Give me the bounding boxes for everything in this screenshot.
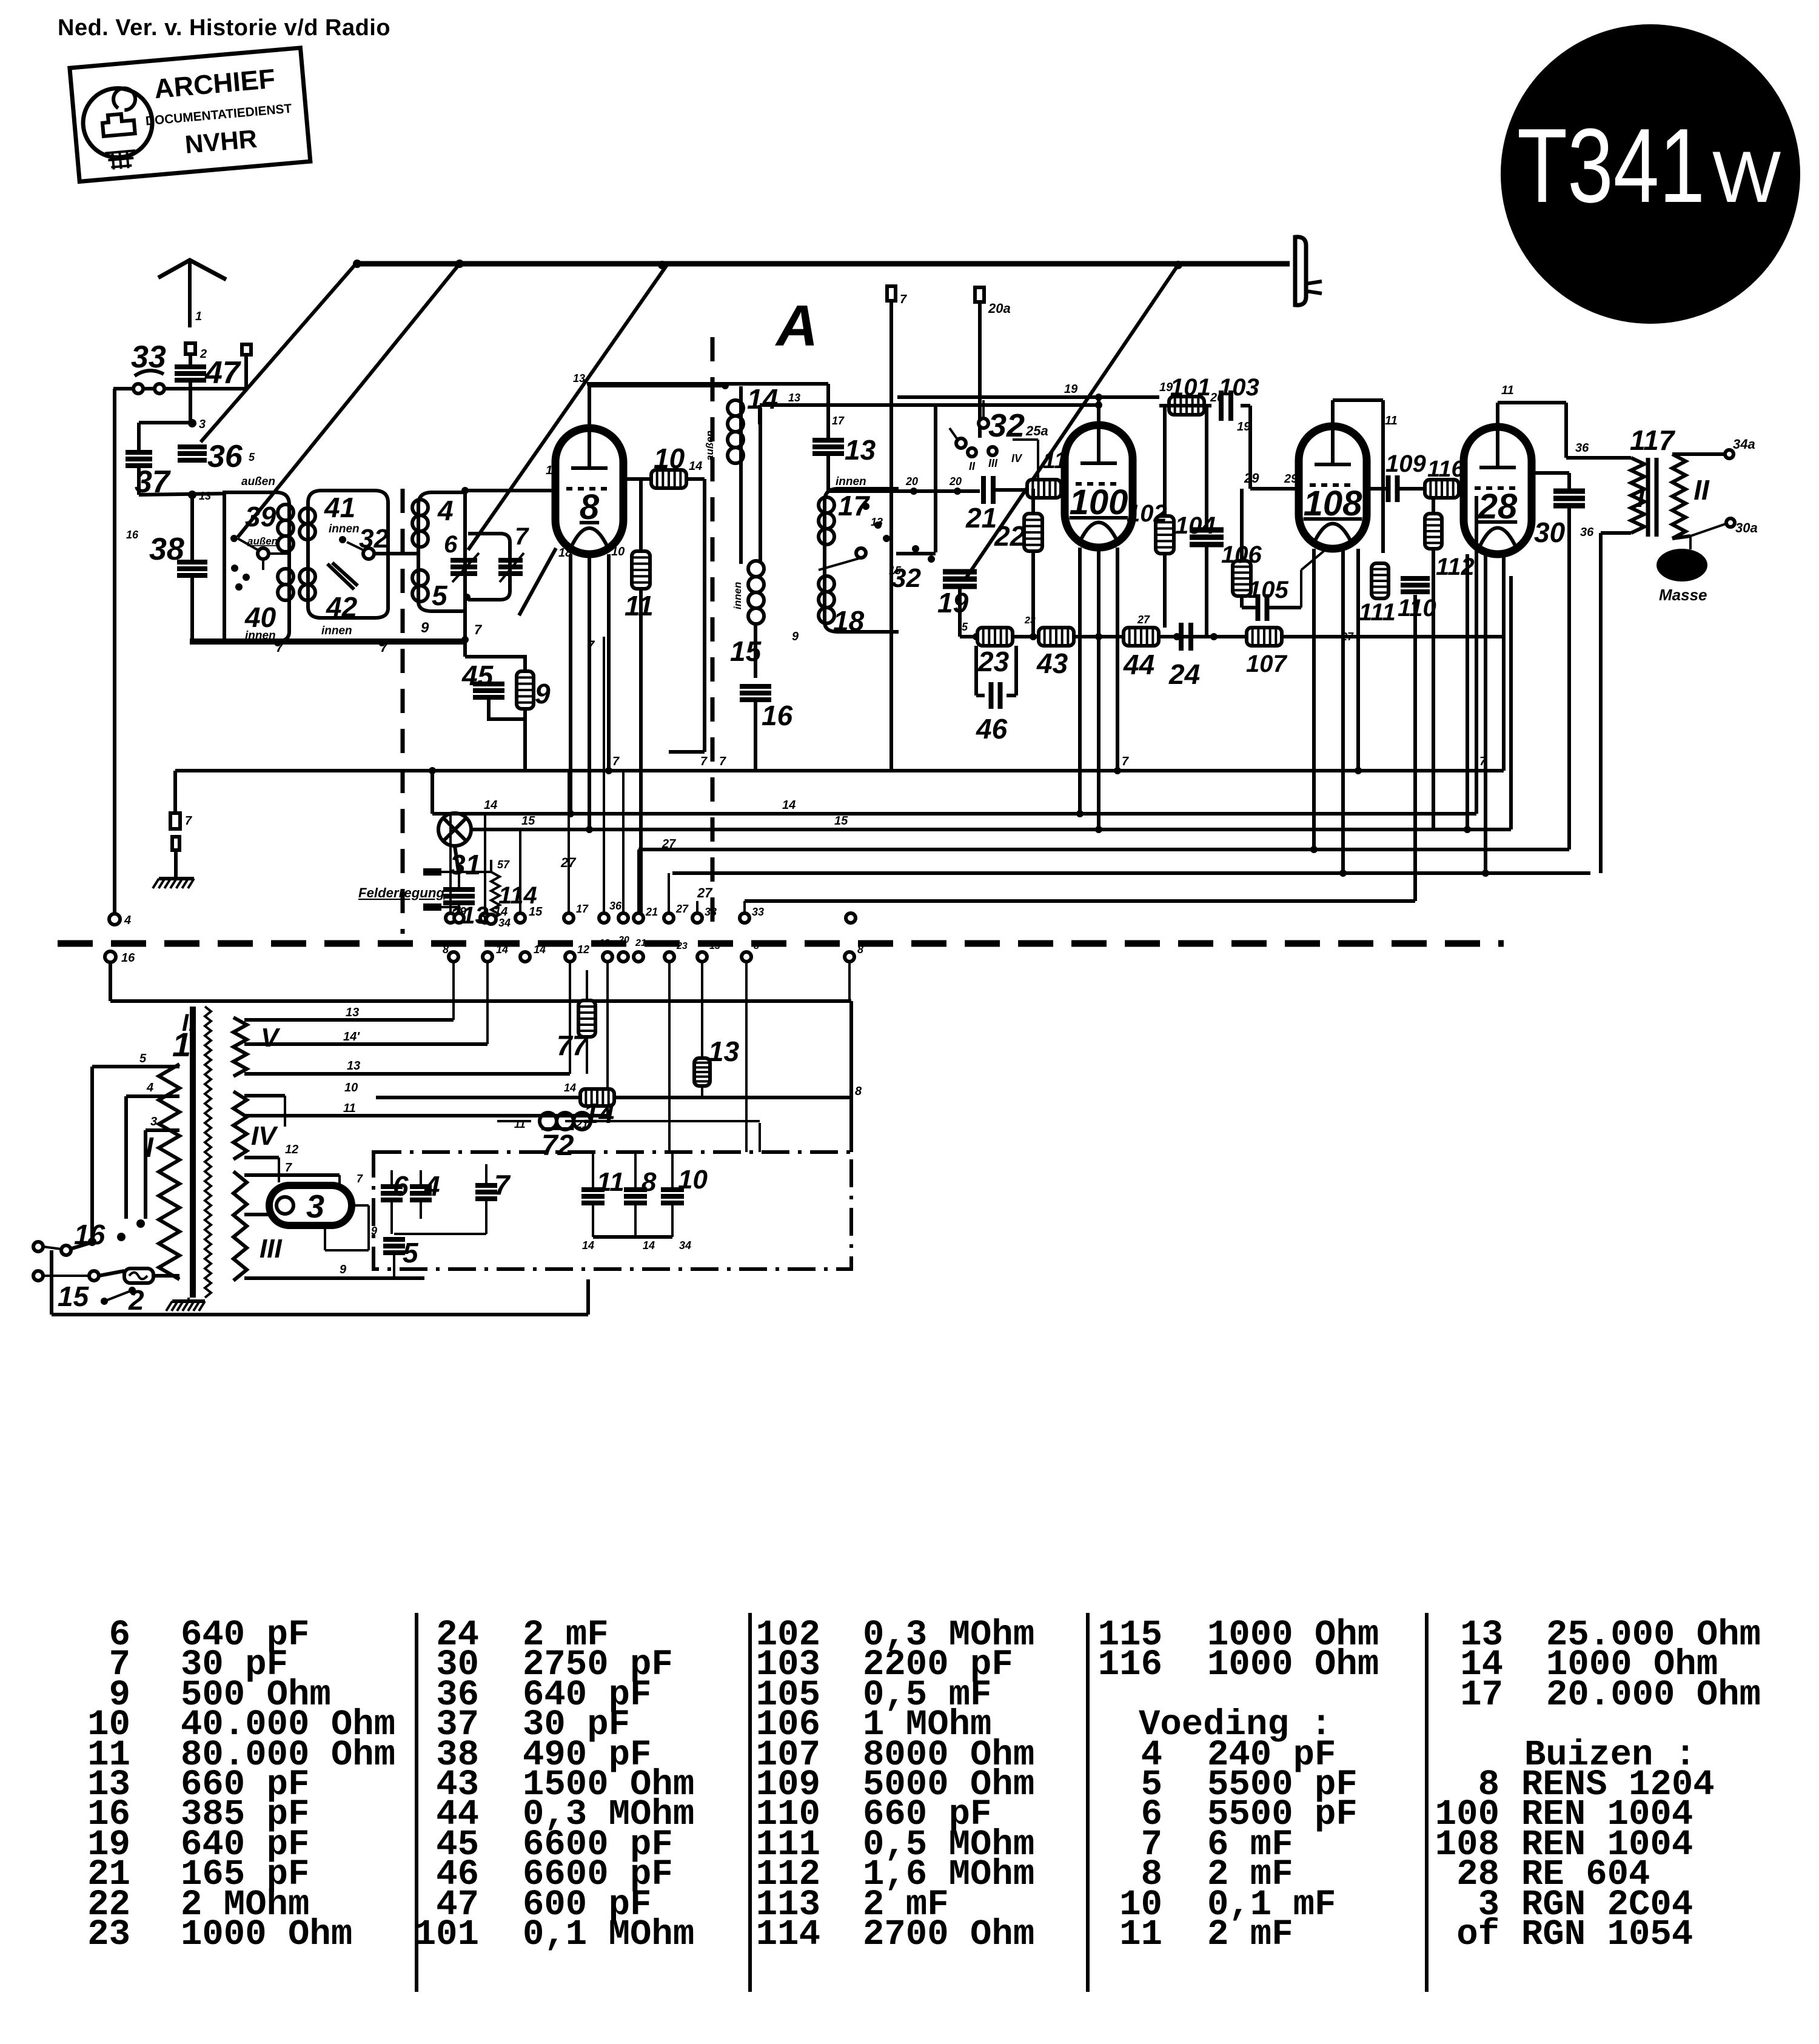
node bus 7a	[274, 639, 281, 646]
wire anode row to res101	[897, 395, 1159, 399]
wire vertical x767	[463, 492, 467, 657]
svg-text:7: 7	[719, 755, 726, 768]
wire far-left vertical from switch	[113, 389, 116, 913]
wire row y1401	[638, 848, 1569, 851]
rectifier tube 3 RGN2004	[269, 1185, 352, 1225]
svg-text:27: 27	[662, 837, 676, 851]
resistor 10	[651, 470, 686, 488]
resistor 23	[977, 628, 1013, 646]
svg-text:101: 101	[1170, 374, 1211, 401]
svg-text:13: 13	[871, 516, 883, 528]
wire switch row 33	[113, 387, 246, 390]
node 13 top	[722, 382, 729, 389]
svg-text:23: 23	[87, 1914, 130, 1955]
wire row y1368	[471, 828, 1511, 831]
power section bottom wire	[52, 1313, 588, 1316]
svg-text:18: 18	[558, 546, 572, 560]
svg-text:27: 27	[1341, 631, 1354, 643]
svg-text:24: 24	[1168, 658, 1200, 690]
svg-text:T341: T341	[1517, 106, 1705, 224]
capacitor 36	[178, 444, 207, 449]
svg-text:11: 11	[1501, 384, 1514, 397]
svg-text:13: 13	[347, 1059, 360, 1073]
svg-text:44: 44	[1123, 649, 1154, 680]
svg-text:5: 5	[432, 580, 448, 611]
wire ground bus RF section	[190, 638, 467, 645]
wire to cap38	[190, 495, 194, 561]
wire lamp feed	[430, 771, 434, 814]
node junction 36/38	[188, 491, 196, 499]
wire 104 down	[1205, 545, 1208, 637]
svg-text:8: 8	[580, 488, 600, 527]
capacitor 47	[175, 364, 206, 369]
NVHR archive stamp	[70, 48, 310, 182]
svg-text:8: 8	[443, 943, 449, 956]
wire res11 top	[639, 479, 643, 551]
svg-text:10: 10	[678, 1165, 708, 1195]
svg-text:3: 3	[306, 1188, 324, 1225]
svg-text:7: 7	[900, 293, 907, 306]
terminal 114	[486, 914, 496, 924]
svg-text:8: 8	[754, 941, 759, 951]
wire coil72	[497, 1120, 531, 1122]
wire anode row y636	[589, 384, 725, 387]
svg-text:41: 41	[324, 492, 355, 523]
earth plate symbol	[1295, 237, 1306, 305]
switch 17/18 contacts	[862, 503, 869, 510]
svg-text:4: 4	[424, 1170, 440, 1202]
wire 13b	[701, 962, 703, 1057]
resistor 102	[1156, 516, 1174, 554]
svg-text:19: 19	[937, 587, 969, 618]
svg-text:7: 7	[1479, 755, 1487, 768]
wire cap30 up	[1567, 473, 1571, 490]
primary taps	[92, 1065, 179, 1068]
svg-text:107: 107	[1246, 651, 1287, 677]
transformer ground	[187, 1298, 190, 1300]
svg-text:4: 4	[437, 495, 454, 526]
svg-text:16: 16	[126, 529, 139, 541]
svg-text:1: 1	[172, 1025, 191, 1064]
terminal 113	[454, 913, 464, 923]
wire cap37 branch vertical	[137, 423, 141, 452]
wire tube28 anode	[1496, 403, 1499, 427]
svg-text:43: 43	[1036, 648, 1068, 679]
wire 25a link	[1013, 438, 1038, 441]
power section left border	[50, 1250, 53, 1315]
svg-text:20: 20	[905, 475, 918, 488]
coil box 4/5/6 outline	[418, 492, 465, 611]
svg-text:19: 19	[1159, 381, 1173, 394]
wire 104 up	[1205, 406, 1208, 530]
svg-text:7: 7	[285, 1161, 292, 1174]
svg-text:42: 42	[326, 591, 358, 623]
svg-text:7: 7	[494, 1169, 511, 1201]
svg-text:102: 102	[1127, 500, 1167, 527]
svg-text:23: 23	[1024, 615, 1036, 626]
svg-text:116: 116	[1098, 1644, 1162, 1685]
svg-text:34: 34	[679, 1239, 691, 1252]
svg-text:108: 108	[1304, 484, 1363, 523]
capacitor 21	[981, 476, 986, 504]
svg-text:4: 4	[124, 914, 131, 927]
node bus junction 4	[1174, 261, 1182, 269]
tube 8 RENS1204	[555, 428, 623, 554]
svg-text:7: 7	[587, 638, 595, 653]
mains terminal a	[33, 1242, 43, 1252]
svg-text:114: 114	[756, 1914, 820, 1955]
wire 102 up	[1163, 406, 1167, 516]
svg-text:15: 15	[521, 814, 535, 828]
svg-text:39: 39	[245, 501, 276, 532]
svg-text:0,1 MOhm: 0,1 MOhm	[523, 1914, 694, 1955]
capacitor 10b	[661, 1187, 684, 1192]
svg-text:innen: innen	[732, 582, 743, 609]
node junction 3a	[188, 419, 196, 427]
coil 39 loops	[278, 504, 293, 520]
svg-text:12: 12	[577, 943, 589, 956]
capacitor 24	[1179, 623, 1184, 651]
wire 22 down	[1031, 551, 1035, 637]
wire cap13 up	[826, 384, 830, 438]
wire row right risers	[1475, 496, 1478, 814]
wire cap38 to ground bus	[190, 576, 194, 642]
wire 22 top	[1031, 489, 1035, 514]
node 7-box junction	[463, 594, 471, 601]
node bus dots	[973, 633, 980, 640]
svg-text:23: 23	[676, 941, 688, 951]
svg-text:19: 19	[1064, 383, 1078, 396]
node bus junction 1	[353, 260, 361, 268]
svg-text:IV: IV	[251, 1121, 278, 1151]
svg-text:8: 8	[857, 943, 863, 956]
power transformer secondary V	[233, 1017, 247, 1076]
tube3 leads	[338, 1175, 341, 1185]
svg-text:11: 11	[343, 1102, 356, 1115]
capacitor 16	[740, 684, 771, 689]
svg-text:36: 36	[609, 900, 622, 912]
wire 16 down-right	[109, 962, 112, 1001]
svg-text:45: 45	[461, 660, 494, 691]
wire wiper riser x1543	[934, 407, 937, 552]
wire gang link segment	[519, 548, 556, 615]
wire to cap37 branch	[139, 421, 192, 424]
capacitor 104	[1190, 528, 1224, 533]
svg-text:1: 1	[195, 310, 202, 323]
node tube100 grid	[1095, 401, 1102, 409]
svg-text:2: 2	[128, 1284, 144, 1316]
wire to tube108 grid	[1250, 487, 1299, 491]
svg-text:20: 20	[949, 475, 962, 488]
svg-text:17: 17	[576, 903, 589, 915]
capacitor 113	[423, 868, 441, 876]
svg-text:17: 17	[1460, 1675, 1503, 1715]
fuse 2	[124, 1268, 153, 1283]
wire tube8 grid to coil	[465, 489, 557, 492]
svg-text:6: 6	[444, 531, 458, 558]
speaker transformer 117	[1631, 458, 1644, 533]
svg-text:20: 20	[1210, 391, 1224, 404]
svg-text:36: 36	[1575, 441, 1589, 455]
tube 108 REN1004	[1299, 426, 1367, 549]
wire tuning-gang diagonal D3	[468, 265, 667, 550]
terminal 0 socket	[242, 344, 251, 355]
resistor 116	[1425, 480, 1459, 498]
wire cap30 down	[1567, 507, 1571, 849]
svg-text:RGN 1054: RGN 1054	[1521, 1914, 1693, 1955]
wire tuning-gang diagonal D2	[238, 264, 460, 537]
svg-text:14: 14	[689, 460, 702, 473]
svg-text:innen: innen	[329, 523, 360, 535]
capacitor 46 loop	[974, 646, 978, 695]
terminal 2 antenna socket	[186, 343, 195, 354]
wire res10 right	[686, 477, 705, 481]
wire 21 right	[993, 488, 1031, 492]
svg-text:40: 40	[244, 601, 276, 633]
svg-text:34: 34	[498, 917, 511, 929]
wire 103 down	[1248, 406, 1252, 489]
lamp 31	[438, 813, 471, 846]
resistor 114 zigzag	[491, 872, 500, 919]
coil 15	[748, 561, 764, 577]
wire 115 to tube100	[1061, 487, 1067, 491]
svg-text:22: 22	[994, 520, 1026, 552]
capacitor 38	[177, 560, 207, 565]
power transformer core bar	[190, 1007, 196, 1298]
wire 105 wiring	[1240, 596, 1244, 608]
svg-text:47: 47	[204, 355, 241, 390]
svg-text:9: 9	[792, 630, 799, 643]
switch 33 wiper arc	[135, 370, 164, 376]
wire 19 down	[958, 587, 962, 637]
coil 41 loops	[300, 508, 315, 524]
svg-text:117: 117	[1630, 424, 1676, 456]
svg-text:3: 3	[199, 418, 206, 431]
svg-text:29: 29	[1244, 471, 1259, 486]
terminal 20a	[975, 287, 984, 302]
svg-text:10: 10	[546, 464, 559, 477]
svg-text:15: 15	[889, 565, 902, 577]
capacitor 45 resistor 9 group	[465, 657, 525, 669]
svg-text:34a: 34a	[1733, 437, 1755, 452]
resistor 115	[1027, 480, 1061, 498]
svg-text:28: 28	[1478, 487, 1518, 526]
svg-text:5: 5	[249, 451, 255, 463]
svg-text:10: 10	[654, 443, 685, 474]
svg-text:7: 7	[1122, 755, 1129, 768]
capacitor 110	[1401, 576, 1430, 581]
antenna symbol	[158, 260, 226, 280]
tube 28 RE604	[1464, 427, 1532, 554]
chassis dashed separator horizontal	[58, 940, 1504, 947]
svg-text:II: II	[969, 460, 976, 472]
capacitor 105	[1256, 594, 1261, 621]
resistor 101	[1169, 397, 1204, 415]
svg-text:13: 13	[709, 941, 720, 951]
svg-text:109: 109	[1385, 451, 1426, 477]
svg-text:2 mF: 2 mF	[1207, 1914, 1293, 1955]
wire tuning-gang diagonal D1	[201, 264, 356, 442]
terminal 4	[109, 914, 120, 925]
svg-text:11: 11	[1119, 1914, 1162, 1955]
svg-text:A: A	[775, 293, 818, 358]
capacitor 30	[1553, 489, 1585, 494]
coil 17 loops	[819, 497, 834, 513]
svg-text:innen: innen	[321, 625, 352, 637]
svg-text:14: 14	[782, 799, 796, 812]
wire mid bus y1050	[960, 635, 1504, 638]
svg-text:7: 7	[185, 814, 192, 828]
wire terminal drops power	[569, 962, 571, 1074]
coil box 17/18 outline	[825, 489, 899, 632]
svg-text:27: 27	[675, 903, 689, 915]
svg-text:33: 33	[131, 340, 166, 375]
svg-text:8: 8	[855, 1085, 862, 1098]
svg-text:7: 7	[380, 640, 389, 655]
switch 33 contact a	[133, 384, 143, 394]
node bus junction 2	[455, 260, 464, 268]
resistor 111	[1372, 563, 1389, 598]
svg-text:6: 6	[393, 1170, 409, 1202]
svg-text:12: 12	[285, 1143, 298, 1156]
wire grid bias row y810	[828, 489, 980, 493]
wire coil15 down	[754, 625, 757, 678]
svg-text:13: 13	[199, 490, 211, 502]
svg-text:103: 103	[1219, 374, 1259, 401]
svg-text:20.000 Ohm: 20.000 Ohm	[1546, 1675, 1761, 1715]
wire 101-103 row	[1159, 404, 1211, 407]
terminal row above chassis line	[446, 913, 455, 923]
capacitor 8b	[624, 1187, 647, 1192]
svg-text:13: 13	[346, 1006, 359, 1019]
wire cap13 down	[826, 455, 830, 491]
svg-text:15: 15	[834, 814, 848, 828]
svg-text:72: 72	[541, 1130, 574, 1162]
secondary tap wires	[244, 1018, 454, 1022]
wire 109-116	[1367, 487, 1388, 491]
svg-text:16: 16	[121, 951, 135, 965]
svg-text:14: 14	[747, 383, 778, 415]
coil 42 loops	[300, 569, 315, 585]
wire lamp bottom lead	[455, 846, 458, 871]
wire row y816	[139, 494, 224, 495]
wire 112 up	[1432, 496, 1435, 514]
svg-text:11: 11	[597, 1167, 625, 1197]
svg-text:14: 14	[564, 1082, 576, 1094]
mains terminal b	[33, 1271, 43, 1281]
wire row y1271	[175, 769, 1504, 772]
wire res14 row	[376, 1096, 580, 1099]
svg-text:II: II	[1693, 474, 1710, 506]
ground symbol left	[159, 877, 194, 880]
coil 14	[728, 400, 743, 416]
wire caps bottom bus	[593, 1235, 672, 1239]
svg-text:9: 9	[340, 1263, 347, 1276]
terminal row below chassis line	[449, 952, 458, 962]
svg-text:21: 21	[645, 906, 658, 918]
wire tube108 leads down	[1312, 549, 1316, 849]
svg-text:16: 16	[762, 700, 793, 731]
svg-text:14: 14	[643, 1239, 655, 1252]
svg-text:14': 14'	[343, 1030, 360, 1044]
capacitor 4b	[410, 1184, 432, 1189]
svg-text:10: 10	[344, 1081, 358, 1094]
resistor 13b	[694, 1058, 710, 1086]
svg-text:15: 15	[58, 1281, 90, 1312]
svg-text:105: 105	[1248, 577, 1288, 603]
svg-text:III: III	[988, 457, 998, 469]
wire tube28 leads down	[1466, 554, 1469, 829]
svg-text:Ned. Ver. v. Historie v/d Radi: Ned. Ver. v. Historie v/d Radio	[58, 15, 390, 41]
switch 15	[89, 1271, 99, 1281]
svg-text:7: 7	[700, 755, 708, 768]
wire 7 down	[889, 301, 893, 771]
chassis dashed vertical right	[711, 337, 715, 934]
svg-text:14: 14	[496, 943, 508, 956]
capacitor 5b	[383, 1237, 405, 1242]
wire antenna lead	[189, 354, 192, 365]
capacitor 6 trimmer	[451, 558, 477, 563]
svg-text:111: 111	[1359, 599, 1396, 626]
svg-text:114: 114	[498, 882, 537, 909]
resistor 77	[578, 1000, 595, 1037]
wire cap47 to switch	[189, 381, 192, 424]
wire 20a down	[978, 302, 982, 438]
svg-text:3: 3	[150, 1115, 157, 1128]
svg-text:36: 36	[1580, 526, 1594, 539]
wire long verticals to terminals	[449, 814, 452, 913]
capacitor 103	[1219, 390, 1224, 421]
svg-text:33: 33	[752, 906, 764, 918]
wire 102 down	[1163, 554, 1167, 628]
power transformer primary zigzag I	[159, 1064, 179, 1279]
capacitor 13	[812, 438, 844, 443]
svg-text:außen: außen	[247, 535, 278, 547]
table dividers	[415, 1613, 418, 1992]
terminal 16 below line	[105, 951, 116, 962]
switch contact dots 39/40	[230, 535, 238, 542]
svg-text:13: 13	[708, 1036, 740, 1067]
svg-text:7: 7	[357, 1173, 363, 1185]
wire row y1486	[745, 899, 1415, 903]
svg-text:5: 5	[962, 621, 968, 633]
T341W model disc	[1501, 24, 1800, 324]
wire tube8 leads down	[569, 554, 572, 814]
svg-text:außen: außen	[241, 475, 275, 488]
wire tube108 anode	[1331, 400, 1335, 426]
svg-text:I: I	[1637, 484, 1645, 512]
wire to ground	[174, 850, 178, 877]
terminal 7 top	[887, 286, 896, 301]
svg-text:13: 13	[573, 372, 585, 384]
wire tube100 leads down	[1078, 548, 1082, 814]
svg-text:9: 9	[421, 620, 429, 636]
wire row y1342	[432, 812, 1476, 816]
svg-text:W: W	[1712, 136, 1781, 218]
chassis dashed vertical left	[401, 489, 405, 934]
svg-text:77: 77	[557, 1030, 589, 1061]
switch 32 contacts	[956, 438, 966, 448]
svg-text:21: 21	[965, 502, 997, 534]
svg-text:46: 46	[976, 713, 1008, 745]
power transformer winding II fine zigzag	[205, 1007, 211, 1298]
coil 4 loops	[412, 500, 428, 515]
svg-text:14: 14	[534, 943, 546, 956]
resistor 107	[1247, 628, 1282, 646]
wire row y1440	[672, 871, 1590, 875]
svg-text:III: III	[260, 1234, 282, 1264]
svg-text:7: 7	[515, 523, 529, 550]
